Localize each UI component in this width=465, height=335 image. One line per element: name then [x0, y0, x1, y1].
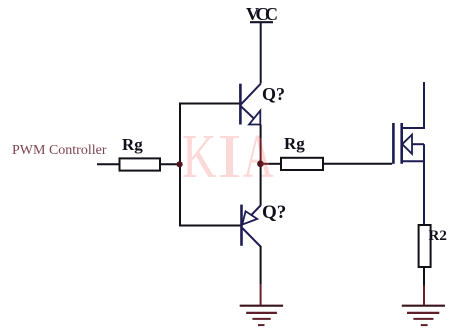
transistor Q2 emitter lead	[252, 205, 262, 215]
wire source vertical	[423, 144, 425, 225]
ground center bar2	[246, 312, 277, 314]
label Rg2	[284, 134, 305, 154]
label VCC	[246, 4, 275, 25]
label PWM Controller	[12, 143, 107, 159]
mosfet M1 body arrow	[402, 135, 412, 154]
wire Q2 collector to ground	[260, 246, 262, 285]
wire emitter rail maroon segment	[260, 138, 262, 164]
wire emitter rail upper	[260, 125, 262, 139]
mosfet M1 gate bar	[392, 123, 395, 164]
resistor Rg1 body	[120, 158, 161, 170]
wire Rg1 to base rail	[160, 163, 180, 165]
resistor R2 body	[419, 225, 431, 267]
junction node at base rail	[177, 161, 183, 167]
wire ground stub maroon center	[260, 285, 262, 305]
transistor Q2 collector	[242, 228, 261, 247]
mosfet M1 body lead	[412, 143, 424, 145]
wire lower base	[179, 225, 242, 227]
label Rg1	[122, 135, 143, 155]
watermark letter K	[182, 126, 216, 188]
transistor Q1 emitter arrow	[249, 111, 260, 125]
watermark letter A	[243, 126, 273, 188]
label Q? upper	[262, 84, 285, 105]
watermark letter I	[217, 126, 242, 188]
transistor Q1 collector	[241, 84, 261, 105]
transistor Q1 base bar	[239, 84, 242, 125]
label R2	[429, 228, 447, 245]
transistor Q2 emitter arrow	[242, 211, 257, 224]
transistor Q1 emitter	[241, 106, 254, 118]
ground right bar2	[407, 312, 439, 314]
wire R2 to ground	[423, 267, 425, 286]
power symbol VCC bar	[250, 21, 273, 23]
mosfet M1 source lead	[402, 160, 424, 162]
wire base rail vertical	[179, 104, 181, 226]
wire Rg2 to gate	[323, 163, 392, 165]
ground right bar1	[402, 305, 445, 307]
label Q? lower	[262, 202, 286, 224]
ground center bar4	[258, 324, 265, 326]
ground center bar3	[252, 318, 270, 320]
transistor Q2 base bar	[240, 205, 243, 246]
wire junction to Rg2 maroon	[260, 163, 269, 165]
mosfet M1 channel bar	[400, 123, 403, 164]
wire ground stub maroon right	[423, 286, 425, 305]
junction node at emitter rail	[257, 161, 264, 168]
mosfet M1 drain lead	[402, 82, 424, 128]
wire emitter rail lower	[260, 164, 262, 205]
wire input from PWM controller	[97, 163, 120, 165]
wire junction to Rg2	[269, 163, 281, 165]
wire upper base	[179, 103, 240, 105]
ground right bar4	[421, 324, 428, 326]
ground center bar1	[240, 305, 283, 307]
wire VCC stem	[260, 22, 262, 83]
resistor Rg2 body	[281, 158, 323, 170]
ground right bar3	[413, 318, 433, 320]
